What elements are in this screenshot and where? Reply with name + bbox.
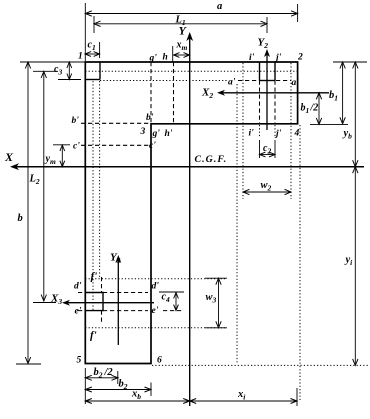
dimension ym arrow (61, 147, 63, 166)
dotted vertical element-1 right edge extension (99, 81, 101, 277)
dimension b label (17, 211, 26, 222)
svg-text:b': b' (72, 116, 80, 126)
dotted horizontal web bottom extension (152, 364, 368, 366)
dimension a line (87, 13, 296, 15)
extension tick w3 top (205, 277, 227, 279)
extension tick xi right (296, 388, 298, 406)
svg-text:1: 1 (78, 52, 83, 62)
svg-text:f': f' (90, 330, 97, 342)
dimension L2 line (43, 73, 45, 300)
Y axis (189, 35, 191, 406)
extension tick c2 left (259, 140, 261, 158)
svg-text:e': e' (152, 306, 159, 316)
dimension yi line (354, 168, 356, 364)
svg-text:2: 2 (297, 53, 303, 63)
dotted vertical long line at x=237 (236, 84, 238, 364)
extension tick c3 bottom (58, 79, 81, 81)
dimension c3 arrow (68, 64, 70, 79)
dimension b line (27, 64, 29, 363)
dotted stub j' below flange (274, 125, 276, 137)
dashed line a'-a' right segment (276, 80, 291, 82)
dimension c1 arrow (87, 53, 99, 55)
svg-text:/2: /2 (310, 103, 319, 114)
dimension yb line (354, 64, 356, 166)
element rectangle i'-j' at top right (c2 wide) (259, 62, 261, 81)
dashed line d'-d' left stub (78, 292, 85, 294)
svg-text:d': d' (74, 282, 82, 292)
dashed vertical f' extension above element (101, 277, 103, 293)
extension tick c2 right (274, 140, 276, 158)
section outline (flange + web, vertices 1-2-4-3-6-5) (85, 62, 297, 364)
X axis (13, 166, 364, 168)
Y2 axis (266, 52, 268, 130)
extension tick L2 top (element centroid level) (33, 70, 58, 72)
svg-text:a: a (217, 1, 222, 12)
extension tick b2 right (web right ext) (150, 383, 152, 397)
extension line right of a (297, 4, 299, 22)
svg-text:b: b (18, 213, 23, 224)
extension tick c3 top (flange top level, left) (20, 61, 85, 63)
extension tick for L1 left (93, 16, 95, 33)
extension tick ym top (c' level) (53, 144, 70, 146)
extension tick b1 bottom (310, 123, 348, 125)
extension tick c1 right (99, 42, 101, 58)
dimension L1 line (96, 23, 265, 25)
dimension b2/2 arrow (87, 377, 117, 379)
dotted vertical w2 right extension (290, 63, 292, 199)
dashed line c'-c' (81, 144, 151, 146)
extension tick b2/2 right (Y3 ext) (117, 371, 119, 384)
dashed line h (173, 62, 175, 124)
dotted vertical w2 left extension (242, 63, 244, 199)
dimension w2 arrow (245, 191, 290, 193)
extension tick c4 top (159, 291, 184, 293)
dotted vertical flange right edge extension down (299, 125, 301, 400)
svg-text:g': g' (149, 54, 158, 64)
svg-text:a': a' (292, 78, 300, 88)
svg-text:b': b' (146, 113, 154, 123)
svg-text:h': h' (165, 129, 173, 139)
svg-text:c': c' (149, 141, 156, 151)
extension tick b bottom (16, 363, 41, 365)
extension tick h-line above flange (172, 46, 174, 62)
dimension L2 label (29, 171, 43, 183)
dotted centroid level line through flange elements (85, 70, 297, 72)
element square at vertex 1 (c1 x c3) (99, 62, 101, 80)
extension line web left edge down (84, 368, 86, 404)
dimension b2 arrow (87, 389, 150, 391)
svg-text:5: 5 (77, 356, 82, 366)
svg-text:3: 3 (140, 127, 146, 137)
dashed line e'-e' left stub (78, 310, 85, 312)
svg-text:/2: /2 (104, 367, 114, 378)
dotted horizontal w3 bottom level (85, 327, 227, 329)
dotted horizontal w3 top level d' (85, 278, 227, 280)
svg-text:f': f' (91, 271, 98, 283)
dimension b1 line (342, 64, 344, 123)
svg-text:e': e' (75, 307, 82, 317)
extension tick b1 top (333, 61, 367, 63)
svg-text:h: h (163, 53, 168, 63)
element square in web at X3 (c4 tall) (85, 293, 103, 311)
dimension c4 arrow (175, 294, 177, 309)
dotted a' level line left part (100, 80, 228, 82)
extension tick for L1 right (Y2 axis ext) (266, 17, 268, 33)
dimension xm arrow (175, 54, 188, 56)
dotted vertical element-1 centerline (92, 81, 94, 311)
dashed line a'-a' left segment (238, 80, 258, 82)
dashed line g' (web right edge through flange) (150, 62, 152, 124)
svg-text:4: 4 (294, 129, 300, 139)
extension tick L2 bottom (X3 level) (33, 302, 56, 304)
svg-text:j': j' (274, 53, 282, 63)
svg-text:i': i' (249, 129, 255, 139)
svg-text:C.G.F.: C.G.F. (195, 154, 228, 165)
X2 axis (220, 92, 329, 94)
dashed line i' (259, 81, 261, 124)
dashed line b'-b' (flange bottom level across web) (81, 122, 150, 124)
extension tick w3 bottom (205, 327, 227, 329)
Y3 axis (117, 258, 119, 345)
dashed line d'-d' right segment (103, 292, 148, 294)
svg-text:g': g' (152, 129, 161, 139)
dimension b1/2 line (318, 94, 320, 123)
svg-text:d': d' (152, 282, 160, 292)
svg-text:X: X (4, 150, 14, 164)
svg-text:c': c' (73, 142, 80, 152)
extension line left of a (flange left edge up) (84, 3, 86, 61)
dimension w3 line (218, 280, 220, 326)
svg-text:j': j' (274, 129, 282, 139)
dotted stub i' below flange (259, 125, 261, 137)
dashed line e'-e' right segment (103, 310, 148, 312)
svg-text:6: 6 (157, 356, 162, 366)
dimension xi arrow (191, 400, 296, 402)
svg-text:a': a' (228, 78, 236, 88)
X3 axis (65, 302, 154, 304)
svg-text:i': i' (249, 53, 255, 63)
dashed line j' (274, 81, 276, 124)
dimension c2 arrow (261, 154, 274, 156)
dimension xb arrow (87, 400, 188, 402)
dashed vertical f' extension below element (101, 311, 103, 325)
